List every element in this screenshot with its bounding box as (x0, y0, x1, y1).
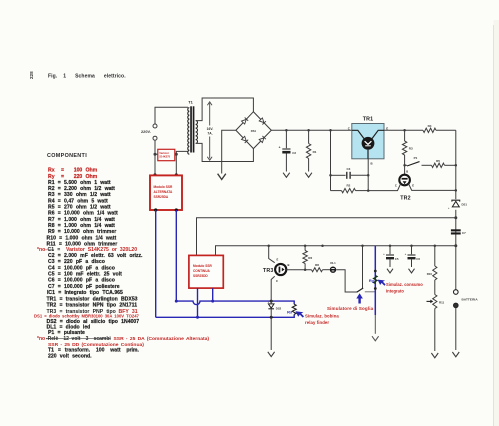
node junction Ry bottom (374, 287, 377, 290)
svg-text:TR2: TR2 (400, 195, 411, 201)
trimmer R11 (433, 295, 437, 309)
module SSR ALTERNATA (red box) (150, 175, 182, 210)
svg-text:R9 = 10.000 ohm trimmer: R9 = 10.000 ohm trimmer (48, 229, 116, 235)
svg-text:RS1: RS1 (251, 129, 257, 133)
resistor R8 (312, 268, 323, 272)
transistor TR1 highlight box (352, 124, 384, 159)
svg-text:R3: R3 (409, 147, 413, 151)
wire Ry branch (blue) (374, 246, 376, 315)
node junction R5 right rail (455, 164, 458, 167)
wire mains bottom down to varistor node (154, 140, 156, 154)
resistor R6 (304, 246, 306, 251)
svg-text:DS1: DS1 (462, 202, 468, 206)
bridge diode bottom-right (259, 138, 264, 143)
wire TR2 collector to TR1 base (368, 184, 401, 191)
ground arrow DS2 (268, 352, 275, 357)
svg-text:Modulo SSR: Modulo SSR (193, 264, 212, 268)
node junction C5 (389, 244, 392, 247)
svg-text:C2 = 2.000 mF elettr. 63 volt: C2 = 2.000 mF elettr. 63 volt orizz. (48, 253, 143, 259)
wire mains top to transformer primary (155, 107, 188, 124)
svg-text:Simulaz. bobina: Simulaz. bobina (305, 314, 339, 319)
node junction TR3 emitter (267, 244, 270, 247)
wire switch to Ry line (365, 291, 376, 293)
svg-text:TR1 = transistor darlington BD: TR1 = transistor darlington BDX53 (47, 296, 138, 302)
svg-text:R3 = 330 ohm 1/2 watt: R3 = 330 ohm 1/2 watt (48, 192, 111, 198)
resistor R10 (434, 246, 436, 266)
svg-text:R2 = 2.200 ohm 1/2 watt: R2 = 2.200 ohm 1/2 watt (48, 186, 115, 192)
svg-text:DL1: DL1 (330, 261, 336, 265)
svg-text:220 volt second.: 220 volt second. (48, 353, 92, 359)
svg-text:Simulaz. consumo: Simulaz. consumo (386, 282, 423, 287)
wire secondary top to bridge (197, 98, 254, 121)
svg-text:C5 = 100 mF elettr. 25 volt: C5 = 100 mF elettr. 25 volt (48, 272, 122, 278)
node junction right varistor (175, 153, 178, 156)
svg-text:CONTINUA: CONTINUA (193, 269, 211, 273)
svg-text:R5: R5 (436, 159, 440, 163)
wire secondary bottom to bridge (197, 143, 254, 161)
resistor R2 (331, 190, 342, 192)
wire C2 to ground (285, 154, 287, 172)
ground arrow C2 (283, 173, 290, 178)
svg-text:R6 = 10.000 ohm 1/4 watt: R6 = 10.000 ohm 1/4 watt (48, 211, 118, 217)
capacitor C5 (389, 246, 391, 255)
svg-text:B: B (288, 263, 290, 267)
node junction C3 right (367, 174, 370, 177)
wire TR2 emitter to right rail (409, 184, 456, 191)
wire DS2 to ground (270, 317, 272, 350)
svg-text:DS1 = diodo schottky MBR30100: DS1 = diodo schottky MBR30100 30A 100V T… (34, 314, 140, 319)
svg-text:Simulatore di Soglia: Simulatore di Soglia (327, 306, 374, 311)
svg-text:DS2: DS2 (276, 306, 282, 310)
node junction left varistor (154, 153, 157, 156)
node junction rail/bottom rail (454, 244, 457, 247)
svg-text:Fig. 1 Schema elettrico.: Fig. 1 Schema elettrico. (48, 74, 126, 80)
diode DS1 schottky (451, 199, 461, 210)
node junction DS2 bottom (270, 316, 273, 319)
ground arrow Ry (372, 336, 379, 341)
transformer T1 secondary winding (196, 121, 198, 144)
svg-text:*no: *no (37, 336, 45, 342)
svg-text:SSR25DD: SSR25DD (193, 274, 208, 278)
wire ALTERNATA left pin to blue bus 2 (155, 210, 157, 317)
svg-text:C3: C3 (346, 167, 350, 171)
svg-text:E: E (386, 126, 388, 130)
module SSR CONTINUA (red box) (189, 255, 223, 288)
svg-text:E: E (277, 257, 279, 261)
svg-text:B: B (406, 169, 408, 173)
resistor R1 (308, 130, 310, 143)
trimmer R11 wiper arrow (427, 300, 431, 302)
terminal battery negative (454, 303, 459, 308)
svg-text:C: C (276, 279, 278, 283)
wire TR3 base to R8 (286, 269, 311, 271)
ground arrow R1 (305, 173, 312, 178)
svg-text:Rx = 100 Ohm: Rx = 100 Ohm (48, 168, 98, 174)
svg-text:relay finder: relay finder (305, 320, 329, 325)
wire blue bus 1 (176, 301, 294, 305)
svg-text:*no-: *no- (37, 247, 47, 253)
svg-text:C4 = 100.000 pF a disco: C4 = 100.000 pF a disco (48, 265, 115, 271)
svg-text:TR3: TR3 (263, 268, 274, 274)
ground arrow C6 (409, 269, 415, 273)
svg-text:Modulo SSR: Modulo SSR (154, 185, 173, 189)
LED DL1 (330, 267, 336, 273)
annotation arrow at threshold switch (blue) (356, 293, 363, 303)
module CONTINUA bottom pin left (blue) (197, 288, 199, 317)
svg-text:COMPONENTI: COMPONENTI (47, 153, 87, 159)
varistor C1 (red replacement box) (158, 149, 175, 160)
svg-text:R11: R11 (439, 300, 445, 304)
wire C5 to ground (389, 260, 391, 268)
resistor Ry (374, 276, 378, 284)
bridge diode top-left (242, 119, 247, 124)
svg-text:C2: C2 (292, 151, 296, 155)
resistor R3 (404, 130, 406, 141)
diode DS2 (268, 304, 274, 308)
transistor TR2 pin B wire (404, 165, 406, 174)
wire lower rail (216, 246, 456, 256)
annotation arrow at Ry (blue) (378, 280, 386, 286)
wire middle rail (197, 218, 456, 255)
ground arrow C5 (387, 269, 393, 273)
svg-text:Ry: Ry (369, 278, 375, 283)
svg-text:TR1: TR1 (363, 117, 374, 123)
transformer T1 primary winding (188, 108, 190, 155)
svg-text:16V.: 16V. (207, 127, 214, 131)
wire TR3 collector to DS2 (271, 276, 275, 301)
node junction R2 right (367, 189, 370, 192)
svg-text:R5 = 270 ohm 1/2 watt: R5 = 270 ohm 1/2 watt (48, 205, 111, 211)
node junction C6 (410, 244, 413, 247)
node junction Ry top (374, 270, 377, 273)
svg-text:R8: R8 (315, 263, 319, 267)
transistor TR1 symbol (352, 130, 364, 138)
module ALTERNATA top pin right (175, 154, 177, 175)
svg-text:R6: R6 (308, 256, 312, 260)
secondary voltage double arrow (209, 103, 211, 126)
TR1 pin B wire (367, 150, 369, 159)
svg-text:R8 = 1.000 ohm 1/4 watt: R8 = 1.000 ohm 1/4 watt (48, 223, 115, 229)
wire TR1 emitter rail to R4 (384, 129, 423, 131)
node junction C2 (285, 129, 288, 132)
node junction on lower rail (321, 244, 324, 247)
svg-text:C7 = 100.000 pF poliestere: C7 = 100.000 pF poliestere (48, 284, 120, 290)
svg-text:228: 228 (29, 71, 34, 79)
wire transformer primary bottom (176, 151, 188, 154)
node junction R6 top (304, 244, 307, 247)
wire Ry to ground (374, 315, 376, 334)
svg-text:SSR - 25 DA (Commutazione Alte: SSR - 25 DA (Commutazione Alternata) (114, 336, 210, 342)
node junction R3 top (403, 129, 406, 132)
svg-text:Varistor: Varistor (159, 151, 169, 155)
svg-text:R4 = 0,47 ohm 5 watt: R4 = 0,47 ohm 5 watt (48, 198, 108, 204)
terminal mains top (153, 124, 157, 128)
node junction TR2 E right rail (455, 189, 458, 192)
svg-text:B: B (371, 161, 373, 165)
svg-text:C6: C6 (416, 257, 420, 261)
resistor Rx (292, 304, 296, 314)
svg-text:P1: P1 (414, 156, 418, 160)
wire switch feed from lower rail (362, 246, 364, 289)
svg-text:Ry = 220 Ohm: Ry = 220 Ohm (48, 174, 98, 180)
wire DL1 to threshold switch (336, 270, 356, 292)
svg-text:R10 = 1.000 ohm 1/4 watt: R10 = 1.000 ohm 1/4 watt (47, 235, 117, 241)
svg-text:C3 = 220 pF a disco: C3 = 220 pF a disco (48, 259, 105, 265)
wire positive rail bridge to TR1 (271, 129, 352, 131)
node junction C3 left (329, 174, 332, 177)
resistor R4 (423, 128, 436, 132)
terminal battery positive (454, 290, 459, 295)
svg-text:Integrato: Integrato (386, 288, 404, 293)
svg-text:R1 = 5.600 ohm 1 watt: R1 = 5.600 ohm 1 watt (48, 180, 111, 186)
svg-text:SSR25DA: SSR25DA (154, 195, 169, 199)
wire battery negative to ground (455, 308, 457, 350)
svg-text:-Relè 12 volt 3 scambi: -Relè 12 volt 3 scambi (46, 336, 111, 342)
svg-text:R4: R4 (428, 124, 432, 128)
wire R10 to R11 (434, 280, 436, 295)
svg-text:Rx: Rx (287, 310, 293, 315)
svg-text:C6 = 100.000 pF a disco: C6 = 100.000 pF a disco (48, 278, 115, 284)
capacitor C7 (451, 229, 461, 231)
wire R11 to ground (434, 309, 436, 352)
switch threshold simulator blade (357, 288, 364, 292)
svg-text:+: + (279, 146, 281, 150)
terminal mains bottom (153, 136, 157, 140)
svg-text:R10: R10 (427, 272, 433, 276)
transformer T1 core (190, 106, 192, 152)
wire branch down to C3/R2 (330, 130, 332, 190)
svg-text:ALTERNATA: ALTERNATA (154, 190, 173, 194)
node junction R1 (307, 129, 310, 132)
module CONTINUA bottom pin right (blue) (212, 288, 214, 301)
wire right rail vertical (455, 130, 457, 289)
wire varistor link (155, 153, 176, 155)
ground arrow battery (452, 352, 459, 357)
node junction R6 bottom (304, 268, 307, 271)
node junction C3/R2 branch (329, 129, 332, 132)
wire bridge AC left to ground (222, 130, 236, 173)
transistor TR3 emitter wire (269, 246, 275, 263)
bridge diode top-right (259, 118, 264, 123)
capacitor C3 (331, 174, 346, 176)
node junction DS2 top (270, 300, 273, 303)
wire R8 to DL1 (323, 269, 330, 271)
svg-text:220V.: 220V. (141, 129, 151, 134)
svg-text:BATTERIA: BATTERIA (462, 297, 479, 301)
transistor TR2 symbol (399, 175, 410, 186)
bridge diode bottom-left (242, 136, 247, 141)
capacitor C6 (411, 246, 413, 255)
wire R4 to right rail (436, 129, 456, 131)
svg-text:TR2 = transistor NPN tipo 2N17: TR2 = transistor NPN tipo 2N1711 (47, 303, 138, 309)
svg-text:C5: C5 (395, 257, 399, 261)
ground arrow R11 (431, 353, 438, 358)
svg-text:E: E (412, 183, 414, 187)
transistor TR3 symbol (275, 264, 286, 275)
annotation arrow at Rx (blue) (296, 311, 305, 317)
node junction R3/P1/TR2 (403, 164, 406, 167)
svg-text:IC1 = Integrato tipo TCA.965: IC1 = Integrato tipo TCA.965 (47, 290, 123, 296)
wire R1 to ground (308, 159, 310, 172)
svg-text:R1: R1 (313, 150, 317, 154)
bridge rectifier RS1 diamond (236, 112, 271, 149)
switch P1 (405, 164, 407, 166)
svg-text:S14K275: S14K275 (159, 155, 170, 159)
node junction rail/mid line (454, 216, 457, 219)
ground arrow below bridge (218, 174, 226, 180)
svg-text:C7: C7 (462, 231, 466, 235)
svg-text:R2: R2 (346, 184, 350, 188)
svg-text:R7 = 1.000 ohm 1/4 watt: R7 = 1.000 ohm 1/4 watt (48, 217, 115, 223)
module ALTERNATA top pin left (154, 154, 156, 175)
wire C6 to ground (411, 260, 413, 268)
svg-text:C: C (395, 183, 397, 187)
capacitor C2 electrolytic (285, 130, 287, 148)
node junction R10 top (434, 244, 437, 247)
wire ALTERNATA right pin to blue bus 1 (175, 210, 177, 301)
wire blue bus 2 (156, 314, 295, 317)
svg-text:7A.: 7A. (207, 132, 212, 136)
resistor R5 (432, 163, 445, 167)
